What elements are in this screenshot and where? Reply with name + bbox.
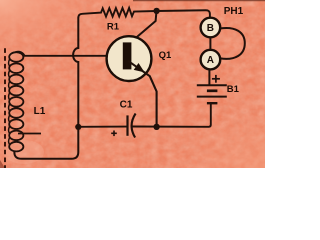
- svg-text:Q1: Q1: [159, 50, 172, 61]
- svg-text:A: A: [207, 55, 214, 66]
- svg-text:B: B: [207, 23, 214, 34]
- svg-text:L1: L1: [34, 106, 46, 117]
- svg-text:C1: C1: [120, 100, 133, 111]
- svg-text:PH1: PH1: [224, 6, 244, 17]
- svg-text:B1: B1: [227, 84, 240, 95]
- svg-text:R1: R1: [107, 21, 120, 32]
